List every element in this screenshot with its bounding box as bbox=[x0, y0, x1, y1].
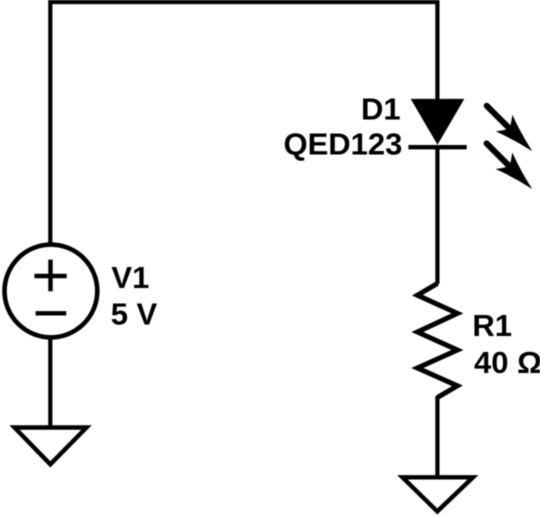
svg-text:V1: V1 bbox=[111, 260, 149, 295]
ground (left, below V1) bbox=[15, 428, 87, 465]
wire resistor R1 to ground bbox=[435, 396, 439, 477]
LED light arrow 2 bbox=[478, 135, 540, 197]
wire LED cathode to resistor R1 bbox=[435, 147, 439, 284]
wire top horizontal bbox=[50, 0, 437, 4]
svg-text:D1: D1 bbox=[361, 91, 401, 126]
svg-text:QED123: QED123 bbox=[283, 127, 402, 162]
voltage source V1 minus symbol bbox=[36, 311, 67, 315]
voltage source V1 plus symbol bbox=[34, 260, 66, 292]
LED D1 triangle (anode) bbox=[411, 99, 465, 145]
wire left vertical (top node to V1 plus terminal) bbox=[48, 0, 52, 245]
ground (right, below R1) bbox=[403, 477, 474, 511]
LED D1 cathode bar bbox=[408, 145, 466, 149]
wire V1 minus terminal to ground bbox=[48, 337, 52, 428]
svg-text:5 V: 5 V bbox=[111, 297, 158, 332]
svg-text:40 Ω: 40 Ω bbox=[474, 345, 540, 380]
voltage source V1 circle bbox=[5, 245, 98, 338]
resistor R1 zigzag bbox=[417, 284, 457, 398]
LED light arrow 1 bbox=[478, 97, 540, 159]
wire right vertical (top node to LED anode) bbox=[435, 0, 439, 100]
svg-text:R1: R1 bbox=[472, 308, 512, 343]
